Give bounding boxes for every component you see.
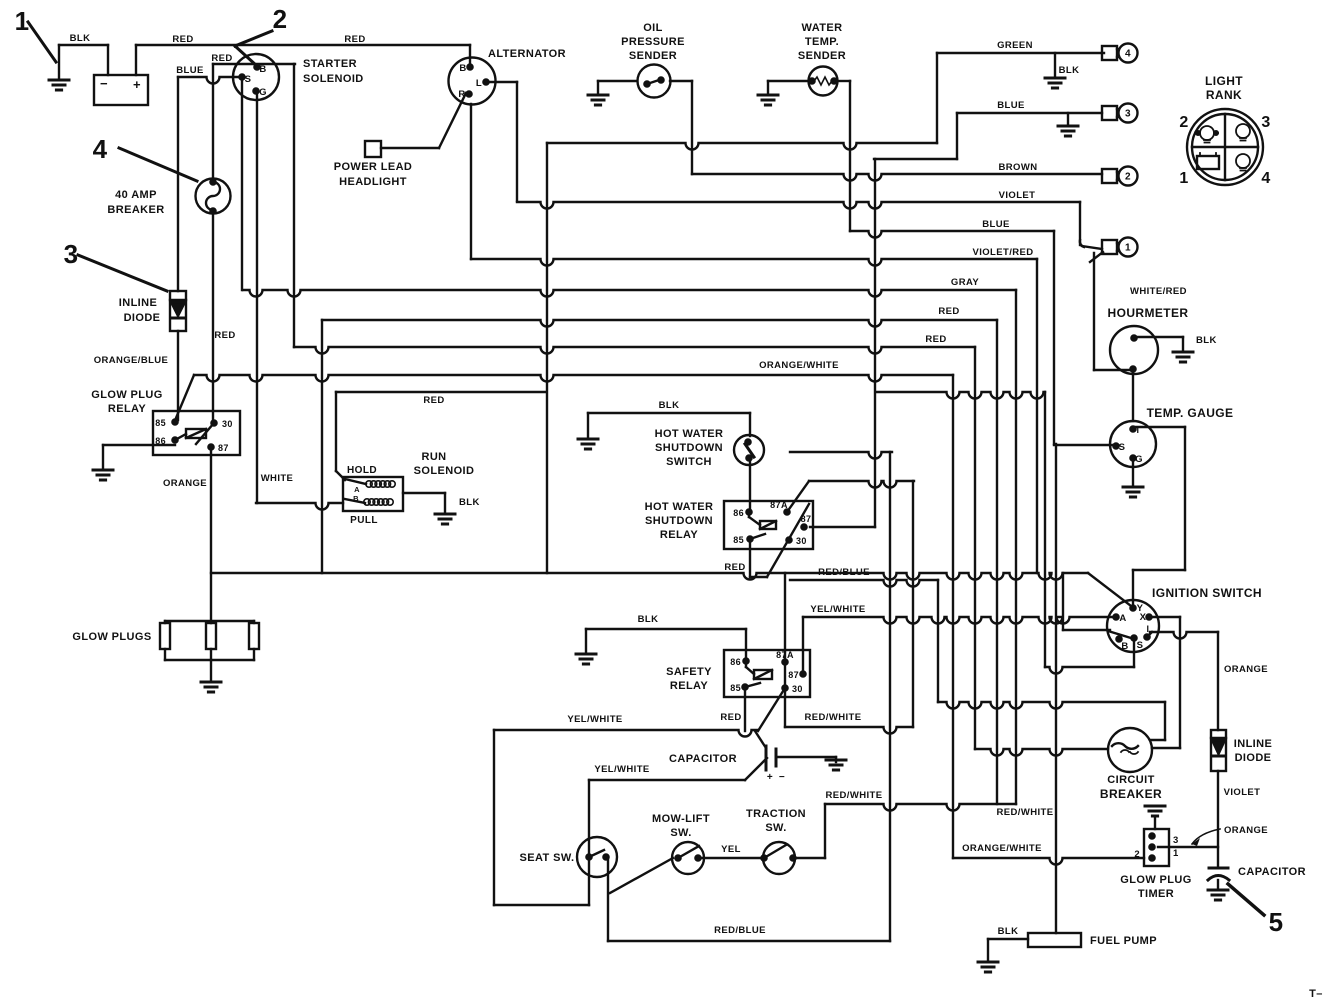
svg-text:SWITCH: SWITCH [666, 456, 712, 468]
svg-text:I: I [1137, 425, 1140, 435]
svg-text:DIODE: DIODE [124, 312, 161, 324]
svg-text:+: + [767, 772, 773, 783]
svg-text:1: 1 [1125, 243, 1131, 254]
svg-text:HEADLIGHT: HEADLIGHT [339, 176, 407, 188]
svg-text:WATER: WATER [802, 22, 843, 34]
svg-text:S: S [1137, 640, 1144, 651]
svg-text:BLK: BLK [638, 614, 659, 625]
svg-text:RELAY: RELAY [670, 680, 709, 692]
svg-text:WHITE: WHITE [261, 473, 294, 484]
svg-text:TIMER: TIMER [1138, 888, 1174, 900]
svg-text:ORANGE/WHITE: ORANGE/WHITE [962, 843, 1042, 854]
svg-text:INLINE: INLINE [119, 297, 157, 309]
svg-text:ALTERNATOR: ALTERNATOR [488, 48, 566, 60]
svg-text:SEAT SW.: SEAT SW. [520, 852, 575, 864]
svg-text:SW.: SW. [670, 827, 691, 839]
svg-text:4: 4 [1125, 49, 1131, 60]
svg-text:30: 30 [796, 536, 807, 546]
svg-text:87: 87 [218, 443, 229, 453]
svg-text:RED/WHITE: RED/WHITE [805, 712, 862, 723]
svg-text:2: 2 [1134, 849, 1140, 860]
svg-text:GRAY: GRAY [951, 277, 979, 288]
svg-text:VIOLET/RED: VIOLET/RED [972, 247, 1033, 258]
svg-text:ORANGE: ORANGE [1224, 825, 1268, 836]
svg-text:RED: RED [214, 330, 235, 341]
svg-text:BLK: BLK [1059, 65, 1080, 76]
svg-text:TRACTION: TRACTION [746, 808, 806, 820]
svg-text:3: 3 [1125, 109, 1131, 120]
svg-text:GLOW PLUG: GLOW PLUG [1120, 874, 1191, 886]
svg-text:BREAKER: BREAKER [1100, 787, 1162, 801]
svg-text:BROWN: BROWN [999, 162, 1038, 173]
svg-text:SENDER: SENDER [629, 50, 677, 62]
svg-text:BLK: BLK [459, 497, 480, 508]
svg-text:ORANGE/BLUE: ORANGE/BLUE [94, 355, 169, 366]
svg-text:SOLENOID: SOLENOID [414, 465, 475, 477]
svg-text:B: B [459, 63, 466, 74]
svg-text:A: A [354, 485, 360, 494]
svg-text:2: 2 [1179, 114, 1188, 131]
svg-text:WHITE/RED: WHITE/RED [1130, 286, 1187, 297]
svg-text:ORANGE: ORANGE [1224, 664, 1268, 675]
svg-text:R: R [458, 89, 465, 100]
svg-text:RED: RED [344, 34, 365, 45]
svg-text:RED: RED [925, 334, 946, 345]
svg-text:TEMP. GAUGE: TEMP. GAUGE [1147, 406, 1234, 420]
svg-text:CAPACITOR: CAPACITOR [669, 753, 737, 765]
svg-text:FUEL PUMP: FUEL PUMP [1090, 935, 1157, 947]
svg-text:STARTER: STARTER [303, 58, 357, 70]
svg-text:BLK: BLK [70, 33, 91, 44]
svg-text:HOT WATER: HOT WATER [645, 501, 714, 513]
svg-text:GREEN: GREEN [997, 40, 1033, 51]
svg-text:87: 87 [788, 670, 799, 680]
svg-text:RED/BLUE: RED/BLUE [818, 567, 870, 578]
svg-text:I: I [1147, 624, 1150, 634]
svg-text:3: 3 [1261, 114, 1270, 131]
svg-text:B: B [259, 64, 266, 75]
svg-text:YEL/WHITE: YEL/WHITE [567, 714, 622, 725]
svg-text:−: − [100, 76, 108, 91]
svg-text:RANK: RANK [1206, 88, 1242, 102]
svg-text:3: 3 [1173, 835, 1179, 846]
svg-text:RED: RED [211, 53, 232, 64]
svg-text:ORANGE/WHITE: ORANGE/WHITE [759, 360, 839, 371]
svg-text:TEMP.: TEMP. [805, 36, 839, 48]
svg-text:HOURMETER: HOURMETER [1108, 306, 1189, 320]
svg-text:30: 30 [222, 419, 233, 429]
svg-text:B: B [353, 494, 359, 503]
svg-text:BLK: BLK [998, 926, 1019, 937]
svg-text:SAFETY: SAFETY [666, 666, 712, 678]
svg-text:40 AMP: 40 AMP [115, 189, 157, 201]
svg-text:SW.: SW. [765, 822, 786, 834]
svg-text:G: G [259, 87, 267, 98]
svg-text:BLUE: BLUE [997, 100, 1024, 111]
svg-text:BREAKER: BREAKER [107, 204, 164, 216]
svg-text:1: 1 [1179, 170, 1188, 187]
svg-text:85: 85 [155, 418, 166, 428]
svg-text:SHUTDOWN: SHUTDOWN [645, 515, 713, 527]
svg-text:VIOLET: VIOLET [1224, 787, 1261, 798]
svg-text:BLUE: BLUE [176, 65, 203, 76]
svg-text:30: 30 [792, 684, 803, 694]
svg-text:B: B [1121, 641, 1128, 652]
svg-text:S: S [245, 74, 252, 85]
svg-text:S: S [1119, 442, 1126, 453]
svg-text:X: X [1140, 612, 1147, 623]
svg-text:RED: RED [938, 306, 959, 317]
svg-text:86: 86 [730, 657, 741, 667]
svg-text:G: G [1135, 454, 1143, 465]
svg-text:RELAY: RELAY [108, 403, 147, 415]
svg-text:85: 85 [733, 535, 744, 545]
svg-text:YEL/WHITE: YEL/WHITE [810, 604, 865, 615]
svg-text:RED/WHITE: RED/WHITE [826, 790, 883, 801]
svg-text:RED: RED [724, 562, 745, 573]
svg-text:GLOW PLUG: GLOW PLUG [91, 389, 162, 401]
svg-text:RED: RED [423, 395, 444, 406]
svg-text:LIGHT: LIGHT [1205, 74, 1243, 88]
svg-text:1: 1 [1173, 848, 1179, 859]
svg-text:85: 85 [730, 683, 741, 693]
svg-text:RED/WHITE: RED/WHITE [997, 807, 1054, 818]
svg-text:RELAY: RELAY [660, 529, 699, 541]
svg-text:INLINE: INLINE [1234, 738, 1272, 750]
svg-text:2: 2 [273, 4, 288, 34]
svg-text:POWER LEAD: POWER LEAD [334, 161, 413, 173]
svg-text:PULL: PULL [350, 515, 378, 526]
svg-text:SHUTDOWN: SHUTDOWN [655, 442, 723, 454]
svg-text:4: 4 [93, 134, 108, 164]
svg-text:HOT WATER: HOT WATER [655, 428, 724, 440]
svg-text:−: − [779, 772, 785, 783]
svg-text:GLOW PLUGS: GLOW PLUGS [72, 631, 151, 643]
svg-text:YEL: YEL [721, 844, 741, 855]
svg-text:87: 87 [801, 514, 812, 524]
svg-text:SENDER: SENDER [798, 50, 846, 62]
svg-text:RED: RED [720, 712, 741, 723]
svg-text:2: 2 [1125, 172, 1131, 183]
svg-text:OIL: OIL [643, 22, 663, 34]
svg-text:ORANGE: ORANGE [163, 478, 207, 489]
svg-text:PRESSURE: PRESSURE [621, 36, 685, 48]
svg-text:86: 86 [733, 508, 744, 518]
svg-text:87A: 87A [776, 650, 794, 660]
svg-text:YEL/WHITE: YEL/WHITE [594, 764, 649, 775]
svg-text:HOLD: HOLD [347, 465, 377, 476]
svg-text:L: L [476, 78, 482, 89]
svg-text:BLUE: BLUE [982, 219, 1009, 230]
svg-text:IGNITION SWITCH: IGNITION SWITCH [1152, 586, 1262, 600]
svg-text:1: 1 [15, 6, 30, 36]
svg-text:T–: T– [1309, 988, 1323, 1000]
svg-text:CAPACITOR: CAPACITOR [1238, 866, 1306, 878]
svg-text:SOLENOID: SOLENOID [303, 73, 364, 85]
svg-text:BLK: BLK [659, 400, 680, 411]
svg-text:VIOLET: VIOLET [999, 190, 1036, 201]
svg-text:RUN: RUN [421, 451, 446, 463]
svg-text:RED/BLUE: RED/BLUE [714, 925, 766, 936]
svg-text:4: 4 [1261, 170, 1270, 187]
svg-text:MOW-LIFT: MOW-LIFT [652, 813, 710, 825]
svg-text:5: 5 [1269, 907, 1284, 937]
svg-text:CIRCUIT: CIRCUIT [1107, 774, 1154, 786]
svg-text:87A: 87A [770, 500, 788, 510]
svg-text:A: A [1119, 613, 1126, 624]
svg-text:DIODE: DIODE [1235, 752, 1272, 764]
svg-text:+: + [133, 77, 141, 92]
svg-text:3: 3 [64, 239, 79, 269]
svg-text:BLK: BLK [1196, 335, 1217, 346]
svg-text:RED: RED [172, 34, 193, 45]
